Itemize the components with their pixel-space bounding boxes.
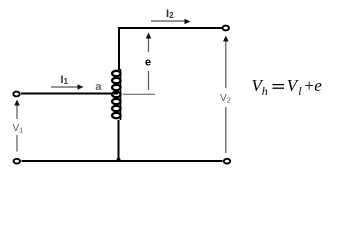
svg-text:V1: V1: [13, 123, 24, 135]
svg-text:V2: V2: [220, 93, 231, 105]
svg-text:h: h: [262, 84, 268, 98]
svg-text:+: +: [303, 76, 314, 95]
svg-text:a: a: [95, 81, 102, 93]
svg-text:e: e: [145, 57, 151, 69]
svg-text:l: l: [298, 84, 302, 98]
svg-text:e: e: [314, 76, 322, 95]
svg-text:I2: I2: [166, 8, 174, 20]
svg-text:I1: I1: [61, 74, 69, 86]
